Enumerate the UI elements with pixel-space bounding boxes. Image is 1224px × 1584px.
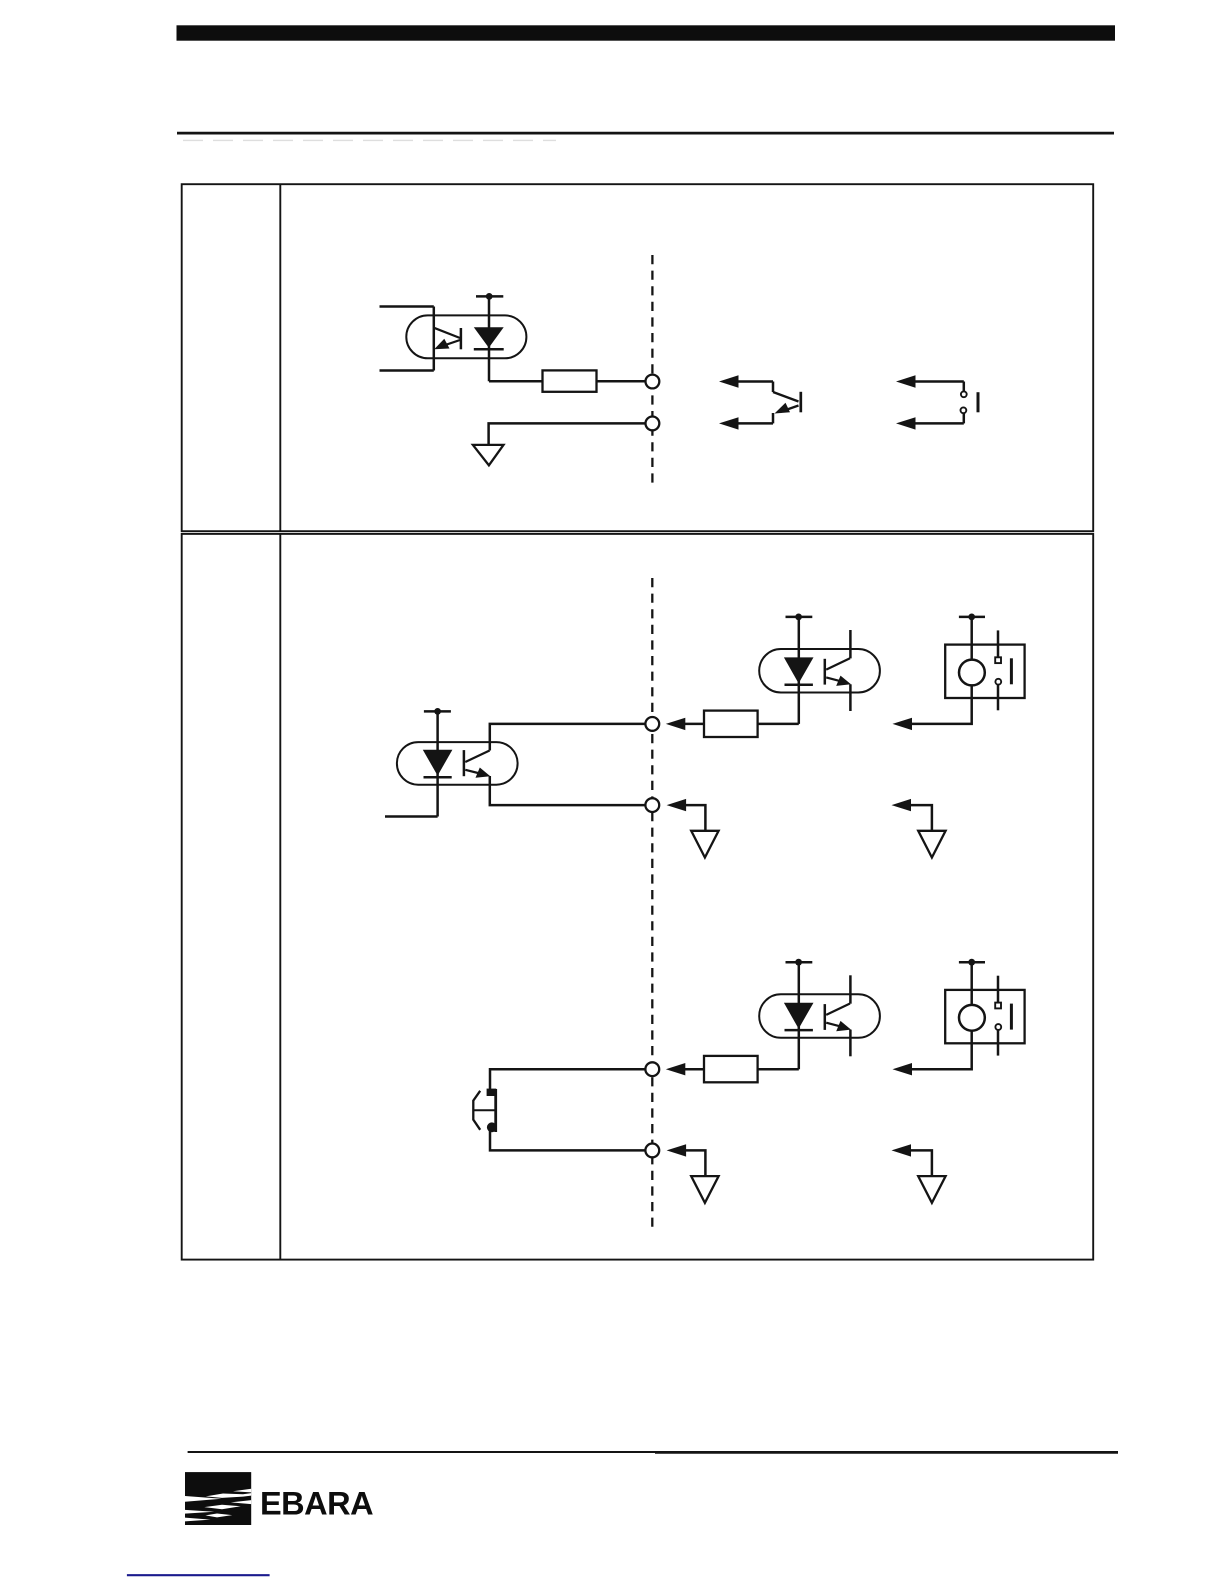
transistor Q2 collector dot [487,1089,497,1096]
U3 phototransistor collector lead [826,658,850,669]
row1 external transistor arrow top [719,375,773,387]
K2 coil wire bottom to arrow [911,1031,972,1070]
K2 contact terminal bottom [995,1024,1001,1030]
K1 coil wire top [970,617,973,660]
optocoupler U3 body [759,649,880,693]
U1 LED triangle [474,327,504,348]
row2b arrow into terminal 1 [666,1063,704,1075]
svg-text:EBARA: EBARA [260,1485,373,1521]
row2a wire collector to terminal 1 [490,724,646,751]
table column divider row 1 [279,184,281,531]
row2a terminal pin 2 [645,798,659,812]
row1 external switch arrow top [896,375,964,387]
row2b wire collector to terminal 1 [490,1069,646,1089]
resistor R2 [704,711,758,737]
row1 wire resistor to terminal [597,380,647,383]
K1 contact terminal bottom [995,679,1001,685]
table row 2 frame [182,534,1093,1260]
row1 external transistor Q-ext sketch [773,382,801,424]
row1 wire collector stub left top [380,305,434,308]
transistor Q2 emitter dot [487,1122,497,1132]
row2b arrow into terminal 2 [667,1144,706,1176]
row2b wire resistor to LED [758,1068,799,1071]
relay K1 box [945,645,1024,698]
row2a ground symbol right [918,831,945,858]
U2 phototransistor collector lead [465,751,489,763]
U1 phototransistor collector lead [434,328,460,338]
row2a wire resistor to LED [758,723,799,726]
row2b ground symbol left [691,1176,718,1203]
K1 contact wire top [997,630,1000,657]
U4 collector pin stub [849,975,852,1003]
row2a supply rail bar right [959,616,985,619]
row2a terminal pin 1 [645,717,659,731]
row2a arrow into terminal 1 [666,718,704,730]
relay K2 box [945,990,1024,1043]
transistor Q2 base lead [473,1109,496,1111]
row1 wire ground to terminal 2 [489,423,646,445]
U2 LED triangle [423,750,453,776]
footer blue underline [127,1574,270,1576]
header black bar [177,25,1116,40]
table row 1 frame [182,184,1093,531]
K1 contact bar [1010,658,1013,684]
K2 contact bar [1010,1004,1013,1030]
U3 LED triangle [784,657,814,683]
U2 phototransistor emitter lead with arrow [465,768,490,778]
transistor Q2 base bar [494,1089,497,1132]
U1 phototransistor base bar [460,328,463,349]
K1 coil wire bottom to arrow [911,685,972,724]
U4 phototransistor emitter lead with arrow [826,1021,851,1031]
U1 LED cathode bar [474,348,504,351]
row1 interface boundary dashed line [651,255,653,485]
U1 phototransistor emitter lead with arrow [434,339,460,349]
K1 contact wire bottom [997,685,1000,711]
U4 phototransistor base bar [824,1004,827,1030]
K2 contact wire bottom [997,1030,1000,1056]
footer rule right emphasis [655,1451,1118,1454]
row2b supply rail bar right [959,961,985,964]
row1 external transistor arrow bottom [719,417,773,429]
optocoupler U4 body [759,994,880,1038]
U4 phototransistor collector lead [826,1004,850,1015]
transistor Q2 body arc [473,1091,480,1130]
row2a supply junction dot left [434,708,441,715]
row2b supply rail bar middle [786,961,813,964]
row1 wire LED to resistor [489,380,543,383]
row1 ground symbol [473,445,504,465]
optocoupler U2 body [397,742,518,785]
U2 phototransistor base bar [463,750,466,776]
row2b wire LED vertical right [798,962,801,1069]
row1 terminal pin 2 [646,417,660,431]
row1 external switch arrow bottom [896,417,964,429]
row2b terminal pin 1 [645,1062,659,1076]
row2b supply junction dot right [968,959,975,966]
row2b arrow to ground right [892,1144,932,1176]
row2a arrow to ground right [892,799,932,831]
row2a wire LED vertical right [798,617,801,724]
row1 wire emitter stub left bottom [380,369,434,372]
row1 supply rail bar [476,295,503,298]
row2a supply rail bar middle [786,616,813,619]
U2 LED cathode bar [424,776,452,779]
U4 emitter pin stub [849,1030,852,1057]
row1 wire LED vertical [488,296,491,381]
U3 phototransistor emitter lead with arrow [826,676,851,686]
optocoupler U1 body [406,315,526,358]
U3 emitter pin stub [849,684,852,711]
row2b arrow from relay [893,1063,913,1075]
row1 wire vertical through optocoupler left [433,307,436,371]
K2 coil wire top [970,962,973,1005]
K1 contact terminal top [995,657,1001,663]
row2a wire LED vertical [436,711,439,816]
K1 coil [959,660,985,686]
footer rule [188,1451,1118,1453]
faint scan artifact line [183,139,556,141]
U3 collector pin stub [849,630,852,658]
table column divider row 2 [279,534,281,1260]
U3 LED cathode bar [785,684,813,687]
row2b wire emitter to terminal 2 [490,1127,646,1150]
row2a arrow from relay [893,718,913,730]
row2b ground symbol right [918,1176,945,1203]
row2a wire emitter to terminal 2 [490,776,646,805]
row2b supply junction dot middle [795,959,802,966]
header rule [177,132,1114,135]
row2b terminal pin 2 [645,1144,659,1158]
EBARA logo mark [185,1472,251,1525]
row2a arrow into terminal 2 [667,799,706,831]
K2 contact terminal top [995,1003,1001,1009]
row1 terminal pin 1 [646,375,660,389]
row1 supply junction dot [486,293,493,300]
row2a ground symbol left [691,831,718,858]
K2 contact wire top [997,976,1000,1003]
row2a wire common stub [385,815,438,818]
resistor R3 [704,1056,758,1082]
U4 LED triangle [784,1003,814,1029]
row2a supply junction dot right [968,614,975,621]
resistor R1 [543,370,597,391]
row2a supply rail bar left [424,710,451,713]
U3 phototransistor base bar [824,659,827,685]
row1 external switch S-ext contacts [961,382,979,424]
U4 LED cathode bar [785,1029,813,1032]
K2 coil [959,1005,985,1031]
row2a supply junction dot middle [795,614,802,621]
row2 interface boundary dashed line [651,578,653,1230]
